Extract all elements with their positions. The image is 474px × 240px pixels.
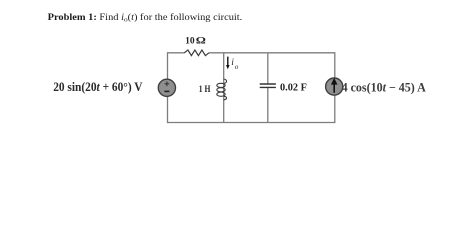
wire inductor branch: [223, 53, 225, 123]
svg-text:Ω: Ω: [196, 36, 206, 46]
voltage source minus: [164, 90, 169, 92]
svg-text:o: o: [235, 64, 239, 71]
wire top-right segment: [209, 52, 335, 54]
svg-text:i: i: [231, 58, 234, 68]
wire capacitor branch bottom: [267, 87, 269, 122]
svg-text:4 cos(10t − 45) A: 4 cos(10t − 45) A: [342, 80, 426, 94]
current source I1 circle: [326, 78, 343, 95]
svg-text:20 sin(20t + 60°) V: 20 sin(20t + 60°) V: [53, 80, 143, 95]
voltage source plus: [165, 82, 170, 87]
wire top-left segment: [168, 52, 185, 54]
capacitor C plates: [260, 83, 276, 85]
current source arrow: [333, 84, 335, 93]
svg-text:1 H: 1 H: [199, 83, 211, 94]
svg-text:0.02 F: 0.02 F: [280, 83, 307, 94]
svg-text:10: 10: [185, 36, 195, 46]
resistor R 10ohm zigzag: [184, 50, 209, 56]
wire left vertical: [167, 52, 169, 123]
current arrow i_o: [227, 57, 229, 66]
wire bottom: [168, 122, 335, 124]
inductor L coil: [217, 79, 227, 100]
wire capacitor branch top: [267, 53, 269, 84]
wire right vertical: [334, 52, 336, 123]
voltage source V1 circle: [158, 79, 175, 96]
svg-text:Problem 1: Find io(t) for the: Problem 1: Find io(t) for the following …: [48, 13, 243, 24]
